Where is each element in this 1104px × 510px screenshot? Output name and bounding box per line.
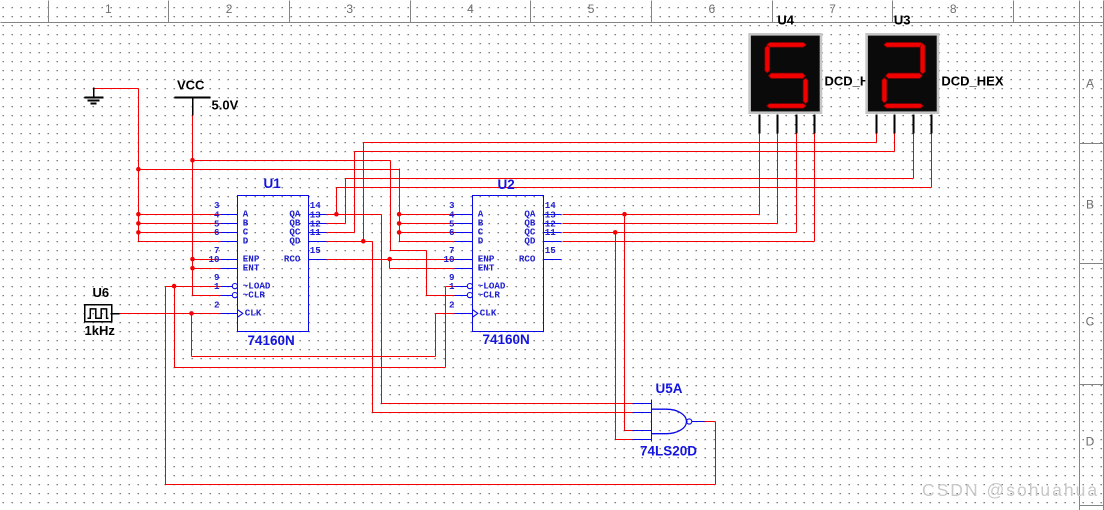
junction VCC-row	[190, 158, 195, 163]
ruler tick 1	[48, 1, 50, 23]
U3 segment B	[920, 43, 925, 74]
ruler tick 6	[651, 1, 653, 23]
wire bus QA to U3 pin4	[337, 187, 932, 189]
U4 segment G	[769, 73, 806, 78]
U2 pin 12 QC	[524, 218, 561, 237]
wire gate input3	[625, 430, 633, 432]
wire U2 QB out	[563, 223, 778, 225]
wire U2 B input	[400, 223, 455, 225]
right column row divider 1	[1080, 143, 1104, 145]
wire VCC jog	[391, 250, 427, 252]
wire U3 pin1 drop	[876, 134, 878, 143]
svg-text:DCD_HEX: DCD_HEX	[941, 74, 1003, 89]
U4 segment F	[765, 46, 770, 73]
svg-text:3: 3	[346, 2, 353, 16]
U4 pin 4 stub	[814, 115, 816, 134]
ruler tick 8	[892, 1, 894, 23]
svg-text:RCO: RCO	[284, 253, 301, 264]
wire U1 QB riser	[345, 179, 347, 224]
svg-text:1: 1	[105, 2, 112, 16]
wire U1 A input	[139, 214, 221, 216]
U3 segment D	[884, 104, 923, 109]
svg-text:6: 6	[214, 227, 220, 238]
wire LOAD branch drop	[174, 287, 176, 368]
U1 pin 9 ~LOAD	[214, 272, 271, 291]
wire gate input4	[616, 439, 633, 441]
wire U2 QA drop to gate	[624, 215, 626, 431]
junction LOAD branch	[172, 284, 177, 289]
junction U2 QA	[622, 212, 627, 217]
display U3 DCD_HEX frame	[865, 33, 939, 114]
U2 pin 2 CLK	[449, 299, 497, 318]
wire U1 QA out	[327, 214, 382, 216]
svg-text:C: C	[1086, 315, 1095, 329]
wire U4 pin3 drop	[796, 134, 798, 233]
svg-text:8: 8	[950, 2, 957, 16]
U1 pin 6 D	[214, 227, 249, 246]
U4 pin 3 stub	[796, 115, 798, 134]
wire gate input2	[373, 412, 633, 414]
clock source U6 symbol	[85, 305, 120, 322]
wire U2 QC drop to gate	[615, 233, 617, 440]
U1 pin 11 QD	[289, 227, 326, 246]
svg-text:CLK: CLK	[245, 308, 262, 319]
junction U2 C	[397, 230, 402, 235]
wire U2 QC out	[563, 232, 797, 234]
wire U2 C input	[400, 232, 455, 234]
svg-text:VCC: VCC	[177, 78, 205, 93]
wire U2 LOAD	[446, 286, 455, 288]
wire U2 CLR riser	[426, 251, 428, 296]
wire GND riser U2 inputs	[399, 169, 401, 242]
wire U2 A input	[400, 214, 455, 216]
junction U1 QD	[361, 239, 366, 244]
wire bottom feedback	[166, 484, 716, 486]
svg-text:B: B	[1086, 198, 1094, 212]
U2 pin 5 C	[449, 218, 484, 237]
U1 pin 4 B	[214, 209, 249, 228]
svg-text:ENT: ENT	[478, 263, 495, 274]
wire clock riser U2	[435, 314, 437, 357]
U3 segment E	[882, 78, 887, 103]
svg-text:A: A	[1086, 77, 1094, 91]
wire clock cross	[192, 356, 436, 358]
junction RCO-ENT	[387, 257, 392, 262]
U1 pin 12 QC	[289, 218, 326, 237]
power VCC symbol	[175, 98, 211, 116]
U3 pin 1 stub	[876, 115, 878, 134]
svg-text:U1: U1	[264, 176, 282, 191]
svg-text:QD: QD	[524, 236, 536, 247]
wire GND drop	[138, 89, 140, 242]
wire U2 QA out	[563, 214, 760, 216]
wire U1 QD drop to gate	[372, 242, 374, 413]
U5A input pin 3	[633, 430, 652, 432]
svg-text:D: D	[243, 236, 249, 247]
ground symbol	[85, 88, 104, 104]
wire U2 QD out	[563, 241, 815, 243]
wire U1 QA drop to gate	[381, 215, 383, 404]
wire U3 pin4 drop	[931, 134, 933, 188]
wire U1 LOAD	[166, 286, 221, 288]
wire VCC branch down	[390, 161, 392, 251]
svg-text:1kHz: 1kHz	[85, 323, 116, 338]
junction U2 B	[397, 221, 402, 226]
U1 pin 15 RCO	[284, 245, 327, 264]
wire clock U6 to U1 CLK	[120, 313, 221, 315]
U3 pin 3 stub	[913, 115, 915, 134]
svg-text:10: 10	[208, 254, 219, 265]
wire gate output	[705, 421, 716, 423]
U2 pin 15 RCO	[519, 245, 562, 264]
svg-text:7: 7	[829, 2, 836, 16]
svg-text:6: 6	[709, 2, 716, 16]
U1 pin 2 CLK	[214, 299, 262, 318]
svg-text:~CLR: ~CLR	[243, 289, 266, 300]
svg-text:QD: QD	[289, 236, 301, 247]
U4 segment D	[767, 104, 806, 109]
U1 pin 10 ENT	[208, 254, 259, 273]
ruler tick 9	[1013, 1, 1015, 23]
wire U4 pin4 drop	[814, 134, 816, 242]
wire LOAD cross	[175, 367, 446, 369]
U2 pin 14 QA	[524, 200, 561, 219]
wire U1 CLR	[193, 295, 221, 297]
svg-text:6: 6	[449, 227, 455, 238]
ruler tick 7	[772, 1, 774, 23]
svg-text:5: 5	[588, 2, 595, 16]
junction U1 ENP	[190, 257, 195, 262]
svg-text:74LS20D: 74LS20D	[640, 444, 697, 459]
wire RCO jog down	[389, 260, 391, 269]
svg-text:U5A: U5A	[656, 381, 683, 396]
right column vertical line	[1079, 1, 1081, 510]
svg-text:U2: U2	[498, 177, 515, 192]
junction U2 A	[397, 212, 402, 217]
U3 segment A	[884, 43, 923, 48]
wire GND row to U2	[139, 169, 400, 171]
svg-text:~CLR: ~CLR	[478, 289, 501, 300]
wire RCO to U2 ENP	[327, 259, 455, 261]
wire LOAD left drop	[165, 287, 167, 485]
svg-text:U6: U6	[93, 285, 110, 300]
counter U1 74160N body	[238, 196, 309, 332]
wire gate output drop	[715, 422, 717, 485]
U2 pin 3 A	[449, 200, 484, 219]
junction U1 C	[136, 230, 141, 235]
U2 pin 9 ~LOAD	[449, 272, 506, 291]
wire U1 C input	[139, 232, 221, 234]
svg-text:74160N: 74160N	[483, 332, 530, 347]
svg-text:RCO: RCO	[519, 253, 536, 264]
svg-text:2: 2	[214, 299, 220, 310]
U2 pin 6 D	[449, 227, 484, 246]
svg-text:15: 15	[545, 245, 557, 256]
wire VCC drop	[192, 116, 194, 296]
junction U2 QC	[613, 230, 618, 235]
junction U1 QA	[334, 212, 339, 217]
U4 segment C	[803, 78, 808, 104]
svg-text:2: 2	[226, 2, 233, 16]
nand gate U5A 74LS20D body	[652, 400, 705, 442]
wire U1 D input	[139, 241, 221, 243]
wire U2 CLK	[436, 313, 455, 315]
wire U1 QC riser	[354, 152, 356, 233]
svg-text:10: 10	[443, 254, 454, 265]
svg-text:74160N: 74160N	[248, 333, 295, 348]
right column row divider 3	[1080, 384, 1104, 386]
U2 pin 11 QD	[524, 227, 561, 246]
ruler tick 3	[289, 1, 291, 23]
ruler tick 2	[168, 1, 170, 23]
U1 pin 14 QA	[289, 200, 326, 219]
wire U1 QC out	[327, 232, 355, 234]
wire clock branch down	[191, 314, 193, 357]
svg-text:U3: U3	[894, 12, 911, 27]
junction U1 B	[136, 221, 141, 226]
junction CLK branch	[189, 311, 194, 316]
wire LOAD riser U2	[445, 287, 447, 368]
svg-text:1: 1	[214, 281, 220, 292]
U2 pin 10 ENT	[443, 254, 494, 273]
junction U1 A	[136, 212, 141, 217]
svg-text:CSDN @sohuahua: CSDN @sohuahua	[922, 480, 1099, 500]
ruler tick 4	[410, 1, 412, 23]
wire bus QC to U3 pin2	[355, 151, 895, 153]
wire U1 ENP	[193, 259, 221, 261]
wire U2 CLR	[427, 295, 455, 297]
wire U1 QB out	[327, 223, 346, 225]
U5A input pin 4	[633, 439, 652, 441]
U3 segment G	[886, 73, 923, 78]
U2 pin 1 ~CLR	[449, 281, 500, 300]
U1 pin 5 C	[214, 218, 249, 237]
svg-text:U4: U4	[777, 12, 794, 27]
wire U1 QD riser	[363, 143, 365, 242]
svg-text:1: 1	[449, 281, 455, 292]
wire bus QD to U3 pin1	[364, 142, 877, 144]
wire U4 pin2 drop	[777, 134, 779, 224]
svg-text:15: 15	[310, 245, 322, 256]
right column row divider 4	[1080, 505, 1104, 507]
U1 pin 7 ENP	[214, 245, 260, 264]
U2 pin 13 QB	[524, 209, 561, 228]
svg-text:D: D	[478, 236, 484, 247]
U3 pin 2 stub	[894, 115, 896, 134]
junction U1 ENT	[190, 266, 195, 271]
wire VCC row	[193, 160, 391, 162]
right edge border line	[1103, 1, 1104, 510]
wire bus QB to U3 pin3	[346, 178, 914, 180]
U1 pin 3 A	[214, 200, 249, 219]
wire U1 ENT	[193, 268, 221, 270]
ruler tick 5	[530, 1, 532, 23]
wire U2 D input	[400, 241, 455, 243]
U5A input pin 2	[633, 412, 652, 414]
wire U1 B input	[139, 223, 221, 225]
wire U2 ENT	[390, 268, 455, 270]
U2 pin 4 B	[449, 209, 484, 228]
svg-text:2: 2	[449, 299, 455, 310]
wire GND to corner	[95, 88, 139, 90]
U3 pin 4 stub	[931, 115, 933, 134]
U1 pin 1 ~CLR	[214, 281, 265, 300]
svg-text:5.0V: 5.0V	[212, 98, 239, 113]
display U4 DCD_HEX frame	[748, 33, 822, 114]
wire U1 QA riser	[336, 188, 338, 215]
wire U3 pin3 drop	[913, 134, 915, 179]
svg-text:11: 11	[310, 227, 322, 238]
svg-text:11: 11	[545, 227, 557, 238]
wire U4 pin1 drop	[759, 134, 761, 215]
sheet border ruler bottom line	[1, 22, 1104, 24]
U1 pin 13 QB	[289, 209, 326, 228]
wire U1 QD out	[327, 241, 373, 243]
U4 pin 2 stub	[777, 115, 779, 134]
svg-text:4: 4	[467, 2, 474, 16]
svg-text:CLK: CLK	[480, 308, 497, 319]
svg-text:D: D	[1086, 435, 1095, 449]
wire gate input1	[382, 403, 633, 405]
junction GND-row	[136, 167, 141, 172]
U5A input pin 1	[633, 403, 652, 405]
U4 segment A	[767, 43, 806, 48]
U2 pin 7 ENP	[449, 245, 495, 264]
U4 pin 1 stub	[759, 115, 761, 134]
counter U2 74160N body	[473, 196, 544, 332]
wire U3 pin2 drop	[894, 134, 896, 152]
svg-text:ENT: ENT	[243, 263, 260, 274]
right column row divider 2	[1080, 263, 1104, 265]
